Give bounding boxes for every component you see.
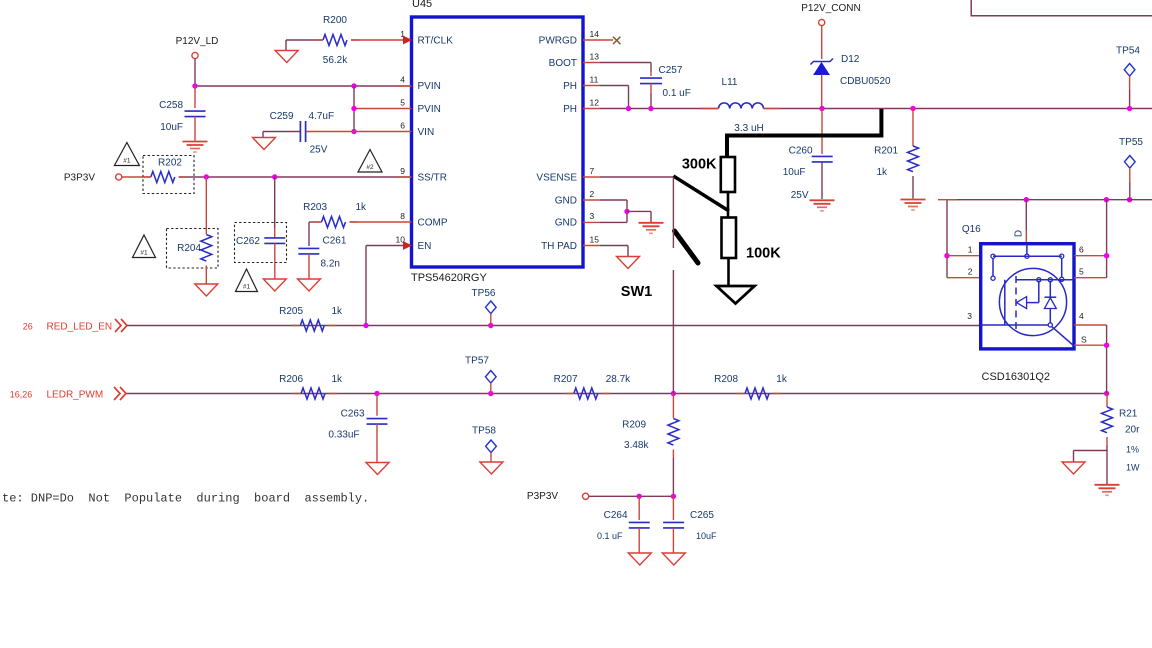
svg-text:4: 4 (1079, 311, 1084, 321)
svg-text:2: 2 (968, 267, 973, 277)
svg-text:R208: R208 (714, 374, 738, 385)
svg-text:R202: R202 (158, 158, 182, 169)
svg-text:100K: 100K (746, 246, 781, 262)
svg-text:R21: R21 (1119, 409, 1138, 420)
svg-text:1k: 1k (332, 306, 344, 317)
svg-text:3.3 uH: 3.3 uH (734, 123, 763, 134)
svg-text:5: 5 (400, 98, 405, 108)
svg-text:6: 6 (400, 121, 405, 131)
svg-text:P12V_LD: P12V_LD (176, 36, 219, 47)
svg-text:26: 26 (23, 322, 33, 332)
svg-text:0.1 uF: 0.1 uF (597, 531, 623, 541)
svg-text:TP55: TP55 (1119, 137, 1143, 148)
svg-text:C258: C258 (159, 100, 183, 111)
svg-text:#1: #1 (243, 284, 251, 291)
svg-text:TPS54620RGY: TPS54620RGY (411, 272, 487, 284)
svg-text:COMP: COMP (418, 218, 448, 229)
svg-text:R206: R206 (279, 374, 303, 385)
svg-text:12: 12 (590, 98, 600, 108)
svg-text:GND: GND (555, 196, 577, 207)
svg-text:1: 1 (968, 245, 973, 255)
svg-text:4: 4 (400, 75, 405, 85)
svg-text:8: 8 (400, 211, 405, 221)
svg-text:25V: 25V (310, 145, 328, 156)
svg-text:GND: GND (555, 218, 577, 229)
svg-text:300K: 300K (682, 157, 717, 173)
svg-text:PVIN: PVIN (418, 104, 441, 115)
svg-text:C259: C259 (270, 111, 294, 122)
svg-text:Q16: Q16 (962, 224, 981, 235)
svg-text:C264: C264 (604, 510, 628, 521)
svg-text:C257: C257 (659, 65, 683, 76)
svg-text:C261: C261 (323, 236, 347, 247)
svg-text:14: 14 (590, 29, 600, 39)
svg-text:P3P3V: P3P3V (64, 173, 95, 184)
svg-text:LEDR_PWM: LEDR_PWM (47, 389, 104, 400)
svg-text:1%: 1% (1126, 445, 1139, 455)
svg-text:C263: C263 (341, 409, 365, 420)
svg-text:TP56: TP56 (472, 288, 496, 299)
svg-text:PWRGD: PWRGD (539, 36, 577, 47)
svg-text:6: 6 (1079, 245, 1084, 255)
svg-text:S: S (1081, 335, 1087, 345)
svg-text:te: DNP=Do Not Populate dur: te: DNP=Do Not Populate during board ass… (2, 492, 369, 506)
svg-text:10uF: 10uF (696, 531, 717, 541)
svg-text:25V: 25V (791, 190, 809, 201)
svg-text:C260: C260 (789, 146, 813, 157)
svg-text:PH: PH (563, 81, 577, 92)
svg-text:0.33uF: 0.33uF (328, 430, 359, 441)
svg-text:10uF: 10uF (783, 167, 806, 178)
svg-text:1W: 1W (1126, 463, 1140, 473)
svg-text:7: 7 (590, 166, 595, 176)
svg-text:4.7uF: 4.7uF (309, 111, 335, 122)
svg-text:R201: R201 (874, 146, 898, 157)
svg-text:R200: R200 (323, 15, 347, 26)
svg-text:10uF: 10uF (160, 122, 183, 133)
svg-text:RED_LED_EN: RED_LED_EN (47, 322, 113, 333)
svg-text:VIN: VIN (418, 127, 435, 138)
svg-text:R209: R209 (622, 420, 646, 431)
svg-text:CDBU0520: CDBU0520 (840, 76, 891, 87)
svg-text:L11: L11 (722, 77, 738, 88)
svg-text:CSD16301Q2: CSD16301Q2 (982, 371, 1051, 383)
svg-text:1k: 1k (876, 167, 888, 178)
svg-text:5: 5 (1079, 267, 1084, 277)
svg-text:11: 11 (590, 75, 599, 85)
svg-text:BOOT: BOOT (549, 58, 577, 69)
svg-text:3: 3 (590, 211, 595, 221)
svg-text:56.2k: 56.2k (323, 55, 348, 66)
svg-text:#1: #1 (123, 158, 131, 165)
svg-text:D12: D12 (841, 54, 860, 65)
svg-text:U45: U45 (412, 0, 432, 10)
svg-text:R205: R205 (279, 306, 303, 317)
svg-text:TP58: TP58 (472, 426, 496, 437)
svg-text:#2: #2 (366, 164, 374, 171)
svg-text:1k: 1k (356, 202, 368, 213)
svg-text:P12V_CONN: P12V_CONN (801, 3, 860, 14)
svg-text:TP54: TP54 (1116, 46, 1140, 57)
svg-text:PH: PH (563, 104, 577, 115)
svg-text:9: 9 (400, 166, 405, 176)
svg-text:RT/CLK: RT/CLK (418, 36, 454, 47)
svg-text:P3P3V: P3P3V (527, 491, 558, 502)
svg-text:16,26: 16,26 (10, 389, 33, 399)
svg-text:15: 15 (590, 235, 600, 245)
svg-text:SW1: SW1 (621, 284, 652, 300)
svg-text:3.48k: 3.48k (624, 440, 649, 451)
svg-text:EN: EN (418, 241, 432, 252)
svg-text:20r: 20r (1125, 425, 1140, 436)
svg-text:R207: R207 (554, 374, 578, 385)
svg-text:13: 13 (590, 52, 600, 62)
svg-text:TP57: TP57 (465, 356, 489, 367)
svg-text:1k: 1k (776, 374, 788, 385)
svg-text:SS/TR: SS/TR (418, 173, 447, 184)
svg-text:0.1 uF: 0.1 uF (663, 88, 691, 99)
svg-text:8.2n: 8.2n (321, 259, 340, 270)
svg-text:3: 3 (967, 311, 972, 321)
svg-text:VSENSE: VSENSE (536, 173, 577, 184)
svg-text:2: 2 (590, 189, 595, 199)
svg-text:R203: R203 (303, 202, 327, 213)
svg-text:28.7k: 28.7k (606, 374, 631, 385)
svg-text:R204: R204 (177, 243, 201, 254)
svg-text:TH PAD: TH PAD (541, 241, 577, 252)
svg-text:1k: 1k (332, 374, 344, 385)
svg-text:D: D (1014, 230, 1025, 237)
svg-text:#1: #1 (140, 250, 148, 257)
svg-text:PVIN: PVIN (418, 81, 441, 92)
svg-text:C265: C265 (690, 510, 714, 521)
svg-text:C262: C262 (236, 236, 260, 247)
